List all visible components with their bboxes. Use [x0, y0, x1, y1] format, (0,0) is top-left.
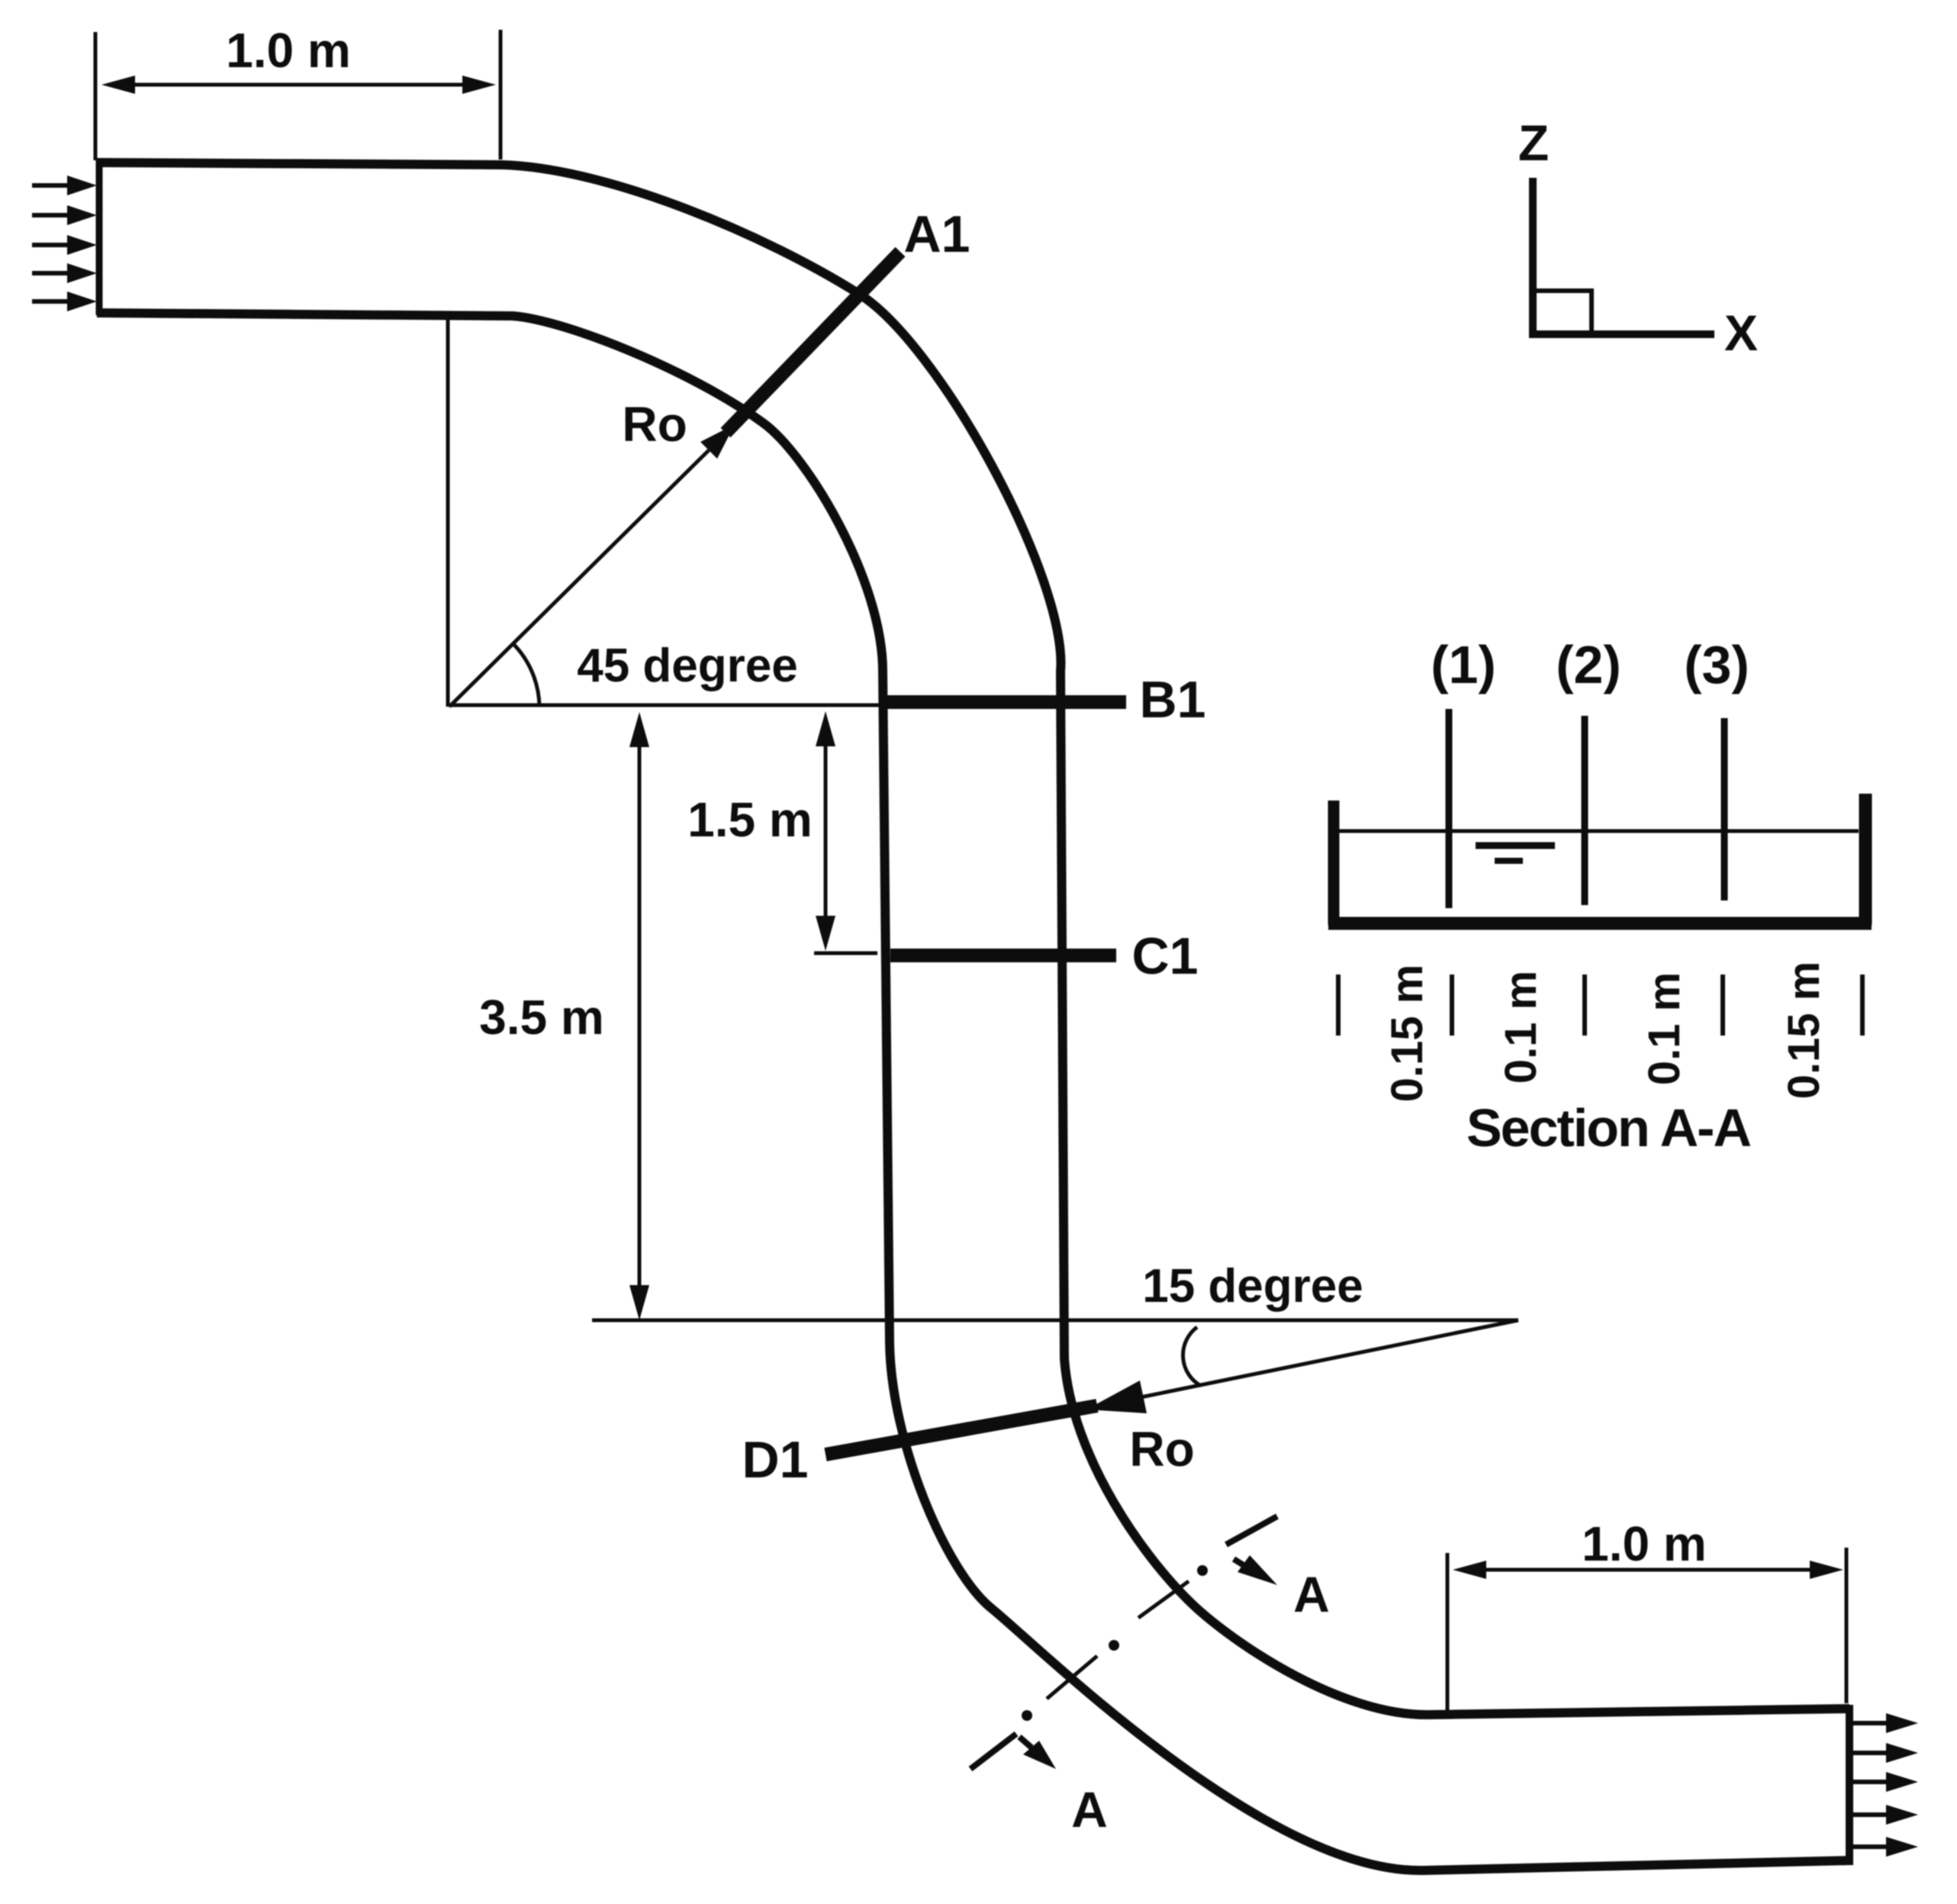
exit flow arrows — [1853, 1723, 1888, 1847]
svg-text:0.15 m: 0.15 m — [1779, 962, 1829, 1100]
svg-text:A: A — [1071, 1781, 1108, 1838]
probe line (3) — [1721, 718, 1728, 900]
inlet dimension line 1.0 m — [114, 83, 482, 87]
svg-text:3.5 m: 3.5 m — [479, 990, 604, 1045]
45 degree angle arc — [513, 643, 539, 707]
duct outer wall (inlet top wall, upper bend outer arc, right wall, lower bend inner arc, exit top wall) — [97, 163, 1849, 1715]
exit dimension line 1.0 m — [1466, 1568, 1827, 1572]
water surface line — [1339, 830, 1859, 833]
svg-text:Z: Z — [1518, 114, 1549, 171]
section cut marker A (lower) — [970, 1734, 1016, 1769]
svg-text:1.5 m: 1.5 m — [687, 792, 813, 847]
inlet dimension extension lines — [95, 30, 501, 160]
svg-text:1.0 m: 1.0 m — [1582, 1516, 1707, 1571]
probe line (1) — [1446, 709, 1453, 908]
upper bend radius arrow Ro at 45 degree — [449, 450, 709, 707]
section cut marker A (upper) — [1226, 1516, 1277, 1545]
svg-text:C1: C1 — [1132, 927, 1199, 985]
svg-text:15 degree: 15 degree — [1142, 1260, 1363, 1313]
width tick marks — [1338, 975, 1862, 1036]
channel right wall — [1859, 794, 1872, 925]
section cut chain line A-A — [1047, 1581, 1189, 1699]
svg-text:D1: D1 — [742, 1431, 809, 1489]
inlet flow arrows — [32, 185, 72, 301]
probe line (2) — [1582, 716, 1588, 905]
exit edge — [1846, 1705, 1853, 1865]
svg-text:0.15 m: 0.15 m — [1382, 965, 1432, 1103]
svg-text:A1: A1 — [904, 205, 970, 263]
upper bend center vertical extension line — [446, 315, 450, 707]
svg-text:X: X — [1724, 304, 1758, 361]
svg-text:Ro: Ro — [622, 397, 687, 452]
15 degree angle arc — [1183, 1327, 1201, 1386]
dimension arrow 1.5 m — [824, 733, 828, 929]
section line D1 — [826, 1406, 1097, 1455]
svg-text:0.1 m: 0.1 m — [1640, 972, 1689, 1085]
channel left wall — [1328, 801, 1340, 925]
upper bend center horizontal baseline — [449, 704, 887, 707]
duct inner wall (inlet bottom wall, upper bend inner arc, left wall, lower bend outer arc, exit bottom wall) — [97, 313, 1849, 1870]
svg-text:Section A-A: Section A-A — [1466, 1098, 1751, 1158]
section line C1 — [890, 949, 1116, 962]
dimension arrow 3.5 m — [638, 734, 642, 1299]
lower bend radius line Ro at 15 degree — [1141, 1320, 1518, 1397]
svg-text:(1): (1) — [1431, 635, 1496, 694]
C1 extension tick — [814, 952, 877, 955]
channel bottom — [1328, 917, 1872, 930]
svg-text:(2): (2) — [1556, 635, 1621, 694]
section line A1 — [726, 252, 900, 433]
lower bend horizontal baseline — [592, 1319, 1518, 1322]
svg-text:45 degree: 45 degree — [577, 639, 798, 692]
coordinate axis right-angle square — [1537, 291, 1592, 334]
svg-text:0.1 m: 0.1 m — [1496, 971, 1546, 1084]
svg-text:1.0 m: 1.0 m — [226, 23, 351, 78]
svg-text:(3): (3) — [1684, 635, 1749, 694]
exit dimension extension lines — [1447, 1548, 1846, 1713]
inlet edge — [96, 160, 103, 315]
coordinate axis X — [1529, 330, 1714, 338]
section line B1 — [887, 695, 1126, 709]
svg-text:B1: B1 — [1140, 671, 1206, 729]
svg-text:A: A — [1293, 1566, 1330, 1622]
svg-text:Ro: Ro — [1129, 1422, 1194, 1477]
water surface marks — [1476, 842, 1555, 849]
coordinate axis Z — [1529, 178, 1537, 338]
